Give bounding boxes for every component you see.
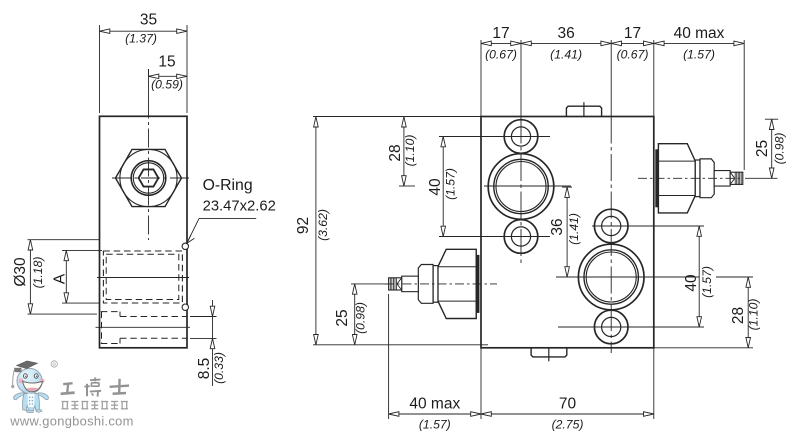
mascot cheeks [18,378,23,383]
svg-text:Ø30: Ø30 [12,257,29,287]
cap tassel [13,368,15,386]
valve vertical centerline [148,69,150,100]
dim 15 (0.59) top [149,54,188,92]
dim 36 (1.41) middle [549,187,581,277]
svg-text:40: 40 [683,274,700,292]
svg-text:(0.98): (0.98) [354,302,368,334]
svg-text:(1.37): (1.37) [125,32,157,46]
svg-text:17: 17 [624,25,641,42]
dim 92 (3.62) far left [295,117,488,345]
valve horizontal centerline through hex nut [112,177,192,179]
valve R hex facet lines [658,160,695,162]
mascot buttons [29,396,31,398]
valve R knurled knob [730,172,743,184]
cavity 1 top port inner [511,127,530,146]
block top edge extended left (ext line for 92/28 dims) [313,116,481,118]
svg-text:(1.18): (1.18) [31,257,45,289]
mascot left arm [14,393,24,400]
dim 25 (0.98) lower left [334,284,388,345]
svg-text:8.5: 8.5 [196,358,213,380]
svg-text:(0.98): (0.98) [773,133,787,165]
dim Ø30 (1.18) left [12,240,99,314]
svg-text:(1.10): (1.10) [403,135,417,167]
mascot right arm [38,393,48,400]
cavity 1 bore inner ring [496,162,546,212]
svg-text:(1.41): (1.41) [567,213,581,245]
svg-text:40 max: 40 max [409,396,460,413]
svg-text:A: A [52,273,69,284]
cavity 2 top port inner [602,216,621,235]
dim 17 (0.67) left [481,25,521,62]
valve L axis centerline [385,283,497,285]
svg-text:36: 36 [557,25,574,42]
mascot mouth [23,381,43,392]
O-Ring label + leader [187,177,276,243]
mascot cap base [14,368,22,373]
mascot eyes [24,374,28,378]
svg-text:O-Ring: O-Ring [203,177,253,194]
O-ring cross-section top [182,243,188,249]
cavity 1 bottom port centerline [439,236,550,238]
svg-text:25: 25 [754,140,771,157]
dim 40 (1.57) right [683,226,714,327]
svg-text:(0.33): (0.33) [212,352,226,384]
svg-text:25: 25 [334,309,351,326]
valve L hex body [438,249,476,318]
dim 8.5 (0.33) lower right [190,300,226,386]
svg-text:www.gongboshi.com: www.gongboshi.com [9,414,133,429]
svg-text:17: 17 [492,25,509,42]
svg-text:36: 36 [549,218,566,235]
mascot cap board [17,361,38,369]
nose hidden profile dashed lines [101,312,188,344]
valve R washer ring [695,160,700,197]
dim 28 (1.10) lower right [730,277,761,348]
hex nut (top view) [116,149,182,206]
cavity 2 bottom port outer [594,310,628,344]
svg-text:(1.10): (1.10) [747,299,761,331]
dim A left [52,250,103,303]
brand char BO [84,377,101,396]
cavity 2 bottom port inner [602,317,621,336]
manifold block outline [481,117,654,348]
valve R seal washer strip [656,150,659,207]
cavity 2 centerline vertical [610,40,612,117]
svg-text:28: 28 [730,307,747,324]
dim 40 max (1.57) bottom [389,396,481,432]
svg-text:(0.67): (0.67) [485,48,517,62]
top tab center tick [583,102,585,116]
cavity 2 top port outer [594,209,628,243]
valve R knob cone [730,172,735,178]
svg-text:92: 92 [295,217,312,234]
svg-text:(1.57): (1.57) [700,266,714,298]
svg-text:23.47x2.62: 23.47x2.62 [203,199,276,215]
hex socket [139,169,159,186]
dim 40 (1.57) left [427,137,458,237]
mascot body [23,394,40,411]
bottom tab center tick [548,348,550,362]
top dim row ext lines [481,40,744,170]
valve L knob cone [397,278,402,284]
valve L seal washer strip [476,255,479,312]
valve R axis centerline [638,177,742,179]
nut inscribed circle [120,149,177,206]
svg-text:(1.57): (1.57) [419,418,451,432]
cavity 2 bore ring [584,250,638,304]
thread section hidden outline (outer dashed rect) [103,251,182,303]
dim 25 (0.98) upper right [745,119,787,178]
cavity 1 flange circle [488,154,554,220]
svg-text:40: 40 [427,178,444,196]
valve L adjust stem [402,276,419,292]
svg-text:28: 28 [387,144,404,161]
bottom ext lines [389,294,654,419]
valve L knurled knob [389,278,402,290]
thread section hidden outline (inner dashed rect) [106,254,179,299]
svg-text:(1.57): (1.57) [444,168,458,200]
valve L locknut [418,265,433,304]
cavity 1 bottom port inner [511,227,530,246]
valve L washer ring [433,266,438,303]
valve R hex body [658,144,695,213]
svg-text:(0.59): (0.59) [151,78,183,92]
tagline pseudo characters [62,402,128,409]
cavity 2 mid centerline [556,276,699,278]
cavity 1 bore ring [494,159,548,213]
svg-text:(1.57): (1.57) [683,48,715,62]
block bottom edge extended right (ext line for 28 dim) [654,347,753,349]
cavity 1 bottom port outer [504,220,538,254]
valve R locknut [700,159,714,198]
cavity 1 centerline vertical [520,40,522,117]
dim 35 (1.37) top [100,12,188,114]
nose centerline [96,326,191,328]
registered mark [51,361,57,367]
svg-text:70: 70 [559,396,577,413]
nut ring circle inner [133,163,163,193]
dim 17 (0.67) right [611,25,654,62]
O-ring cross-section bottom [182,304,188,310]
cavity 2 bottom port centerline [558,326,704,328]
svg-text:R: R [52,362,56,368]
svg-text:35: 35 [140,12,157,29]
brand char SHI [110,379,129,394]
svg-text:(1.41): (1.41) [550,48,582,62]
bottom tab [531,348,567,357]
cavity 1 top port outer [504,120,538,154]
valve body outline (left view) [100,116,188,347]
cavity 2 top port centerline [592,225,704,227]
svg-text:15: 15 [158,54,175,71]
valve R adjust stem [714,171,730,187]
dim 36 (1.41) top [521,25,611,62]
dim 28 (1.10) left [387,117,417,186]
valve L hex facet lines [438,266,476,268]
cavity 1 mid centerline [399,185,415,187]
cavity 2 flange circle [578,244,644,310]
brand char GONG [61,383,75,394]
dim 40 max (1.57) top right [654,25,744,62]
svg-text:(2.75): (2.75) [552,418,584,432]
watermark logo group [9,361,133,429]
svg-text:(3.62): (3.62) [316,209,330,241]
svg-text:40 max: 40 max [674,25,725,42]
nut ring circle outer [131,161,166,196]
cavity 1 top port centerline [439,136,550,138]
cavity 2 bore inner ring [586,252,636,302]
thread section centerline [97,277,189,279]
svg-text:(0.67): (0.67) [617,48,649,62]
top mounting tab [566,106,601,116]
mascot feet [26,410,33,412]
dim 70 (2.75) bottom [481,396,654,432]
